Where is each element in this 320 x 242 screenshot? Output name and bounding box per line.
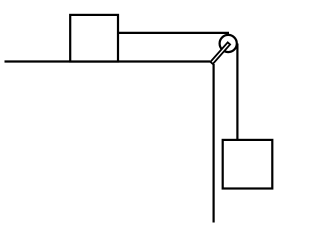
table front vertical edge [213, 64, 215, 223]
horizontal rope from block to pulley [118, 32, 229, 34]
pulley wheel [220, 35, 237, 52]
table top surface line [5, 60, 211, 62]
hanging block M2 [223, 140, 273, 189]
pulley mounting strut bracket [210, 42, 230, 64]
vertical rope from pulley to hanging block [236, 44, 238, 141]
block M1 on table [70, 15, 118, 62]
